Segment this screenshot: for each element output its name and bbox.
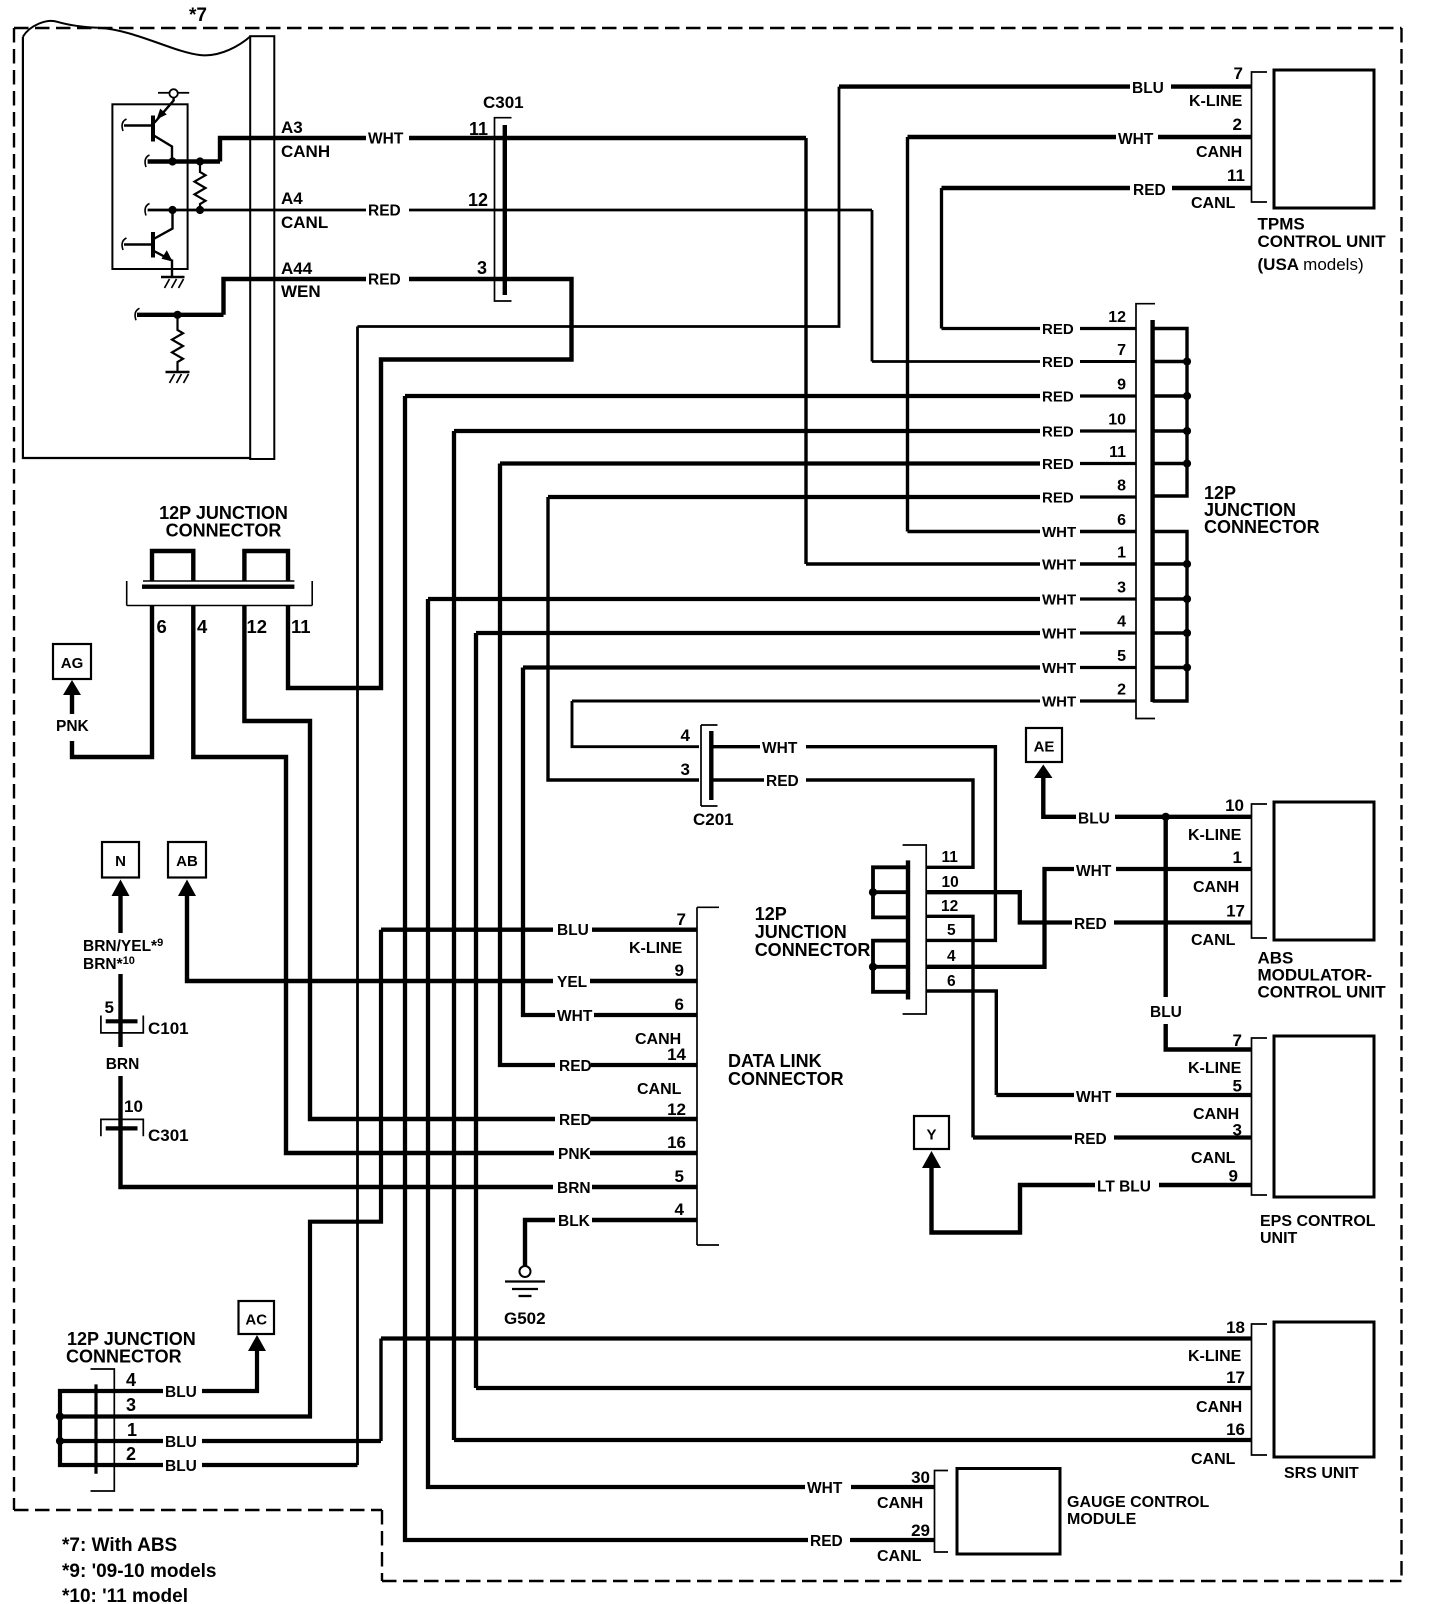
svg-text:4: 4	[947, 948, 956, 965]
svg-text:CONNECTOR: CONNECTOR	[728, 1069, 844, 1089]
svg-text:5: 5	[675, 1167, 684, 1186]
wire A4 CANL: ECM to C301 pin 12 then junction pin 7 (RED)	[148, 209, 366, 212]
svg-text:6: 6	[675, 995, 684, 1014]
svg-text:10: 10	[124, 1097, 143, 1116]
svg-text:YEL: YEL	[557, 974, 587, 991]
svg-text:5: 5	[1233, 1077, 1242, 1096]
svg-text:BLU: BLU	[1132, 80, 1164, 97]
wire WHT: right junction pin 2 to C201 pin 4	[572, 700, 1040, 703]
svg-text:MODULE: MODULE	[1067, 1511, 1137, 1528]
connector AG	[53, 644, 91, 679]
svg-text:CANL: CANL	[281, 213, 328, 232]
node: K-LINE tap to EPS	[1162, 813, 1170, 821]
svg-text:LT BLU: LT BLU	[1097, 1179, 1151, 1196]
svg-text:RED: RED	[1042, 490, 1074, 507]
wire WHT: middle junction pin 4 to ABS CANH pin 1	[926, 869, 1074, 967]
svg-text:RED: RED	[368, 203, 401, 220]
svg-text:7: 7	[1233, 1031, 1242, 1050]
transistor Q2 (lower)	[155, 211, 173, 239]
svg-text:RED: RED	[1042, 321, 1074, 338]
svg-text:RED: RED	[1042, 389, 1074, 406]
svg-text:CONTROL UNIT: CONTROL UNIT	[1258, 983, 1387, 1002]
svg-text:CONNECTOR: CONNECTOR	[755, 940, 871, 960]
svg-text:RED: RED	[1074, 916, 1107, 933]
svg-text:9: 9	[675, 961, 684, 980]
svg-text:7: 7	[1234, 64, 1243, 83]
svg-text:6: 6	[157, 616, 167, 637]
svg-text:4: 4	[1117, 614, 1126, 631]
svg-text:WEN: WEN	[281, 282, 321, 301]
inner transistor-pair box	[112, 104, 187, 269]
svg-text:3: 3	[477, 258, 487, 278]
wire YEL: connector AB to DLC pin 9	[187, 896, 553, 981]
svg-text:12: 12	[1108, 309, 1126, 326]
svg-text:RED: RED	[559, 1112, 592, 1129]
svg-text:2: 2	[1117, 682, 1126, 699]
svg-text:BRN: BRN	[557, 1180, 591, 1197]
svg-text:C301: C301	[483, 93, 524, 112]
svg-text:BLU: BLU	[165, 1384, 197, 1401]
ground (inside ECM, WEN)	[166, 371, 190, 373]
svg-text:2: 2	[126, 1444, 136, 1464]
wire RED: C201 pin 3 to middle junction pin 11	[713, 778, 764, 781]
svg-text:18: 18	[1226, 1318, 1245, 1337]
EPS control unit box	[1274, 1036, 1374, 1197]
svg-text:CANH: CANH	[1193, 879, 1239, 896]
connector AB	[168, 842, 206, 878]
junction bus jumper (rows 12-8)	[1153, 329, 1187, 497]
svg-text:12: 12	[667, 1100, 686, 1119]
svg-text:14: 14	[667, 1045, 686, 1064]
svg-text:WHT: WHT	[1042, 524, 1076, 541]
svg-text:DATA LINK: DATA LINK	[728, 1051, 822, 1071]
TPMS connector bracket	[1252, 72, 1268, 202]
wire RED: right junction pin 11 down to DLC CANL pin 14	[500, 461, 1040, 465]
junction bus jumper (rows 6-2)	[1153, 532, 1187, 702]
wire BLU: DLC K-LINE pin 7 down to bottom junction pin 3	[381, 928, 553, 932]
svg-text:16: 16	[667, 1133, 686, 1152]
12P junction connector (middle)	[903, 845, 927, 1014]
svg-text:WHT: WHT	[368, 131, 404, 148]
svg-text:9: 9	[1117, 377, 1126, 394]
junction jumper (pins 4-3-1-2)	[60, 1391, 96, 1465]
svg-text:7: 7	[1117, 342, 1126, 359]
wire WHT to TPMS CANH pin 2	[908, 135, 1117, 139]
svg-text:9: 9	[1229, 1167, 1238, 1186]
wire RED: right junction pin 9 down to gauge module CANL pin 29	[405, 394, 1040, 398]
svg-text:12: 12	[247, 616, 268, 637]
wire WHT: right junction pin 3 down to gauge module CANH pin 30	[428, 597, 1040, 601]
wire RED: middle junction pin 10 to ABS CANL pin 17	[926, 892, 1072, 922]
svg-text:*10: '11 model: *10: '11 model	[62, 1586, 188, 1604]
svg-text:C101: C101	[148, 1019, 189, 1038]
svg-text:BRN/YEL*9: BRN/YEL*9	[83, 937, 163, 955]
ECM pin-header connector strip	[250, 36, 274, 459]
svg-text:RED: RED	[368, 272, 401, 289]
svg-text:RED: RED	[766, 773, 799, 790]
wire RED: right junction pin 8 to C201 pin 3	[548, 495, 1040, 499]
svg-text:12: 12	[468, 190, 488, 210]
connector C101 (inline)	[101, 1016, 143, 1033]
svg-text:CONNECTOR: CONNECTOR	[1204, 517, 1320, 537]
svg-text:CANL: CANL	[1191, 195, 1236, 212]
wire RED: middle junction pin 12 down to EPS CANL pin 3	[926, 916, 973, 1137]
svg-text:CANL: CANL	[637, 1081, 682, 1098]
svg-text:1: 1	[127, 1420, 137, 1440]
svg-text:4: 4	[681, 726, 691, 745]
connector Y	[914, 1116, 949, 1149]
svg-text:CONNECTOR: CONNECTOR	[166, 521, 282, 541]
svg-text:WHT: WHT	[1042, 557, 1076, 574]
wire BLU: connector AE to ABS K-LINE pin 10	[1043, 777, 1076, 817]
wire PNK: junction pin 6 to connector AG	[72, 606, 152, 758]
svg-text:CONTROL UNIT: CONTROL UNIT	[1258, 232, 1387, 251]
svg-text:UNIT: UNIT	[1260, 1230, 1298, 1247]
svg-text:CANH: CANH	[877, 1495, 923, 1512]
svg-text:K-LINE: K-LINE	[1188, 1348, 1242, 1365]
svg-text:A44: A44	[281, 259, 313, 278]
wire: SRS K-LINE pin 18 to bottom junction pin 1	[381, 1336, 1252, 1340]
svg-text:PNK: PNK	[56, 718, 90, 735]
data link connector body	[697, 907, 719, 1245]
svg-text:4: 4	[197, 616, 208, 637]
wire WHT: right junction pin 5 down to DLC CANH pin 6	[523, 665, 1040, 669]
svg-text:BLU: BLU	[165, 1434, 197, 1451]
svg-text:6: 6	[1117, 512, 1126, 529]
svg-text:(USA models): (USA models)	[1258, 255, 1364, 274]
wire TPMS K-LINE BLU: down mid trunk to bottom junction pin 2	[358, 87, 840, 327]
svg-text:3: 3	[681, 760, 690, 779]
svg-text:RED: RED	[1133, 182, 1166, 199]
svg-text:RED: RED	[1042, 424, 1074, 441]
svg-text:RED: RED	[1042, 354, 1074, 371]
svg-text:SRS UNIT: SRS UNIT	[1284, 1465, 1359, 1482]
svg-text:7: 7	[677, 910, 686, 929]
wire BLU: ABS K-LINE down to EPS K-LINE pin 7	[1163, 817, 1167, 997]
svg-text:3: 3	[1117, 580, 1126, 597]
resistor (WEN pull-down)	[172, 317, 183, 372]
svg-text:EPS CONTROL: EPS CONTROL	[1260, 1213, 1376, 1230]
ECM module box with torn-edge wavy top	[23, 37, 250, 458]
wire WHT: middle junction pin 6 down to EPS CANH pin 5	[926, 991, 996, 1095]
svg-text:CANL: CANL	[1191, 1451, 1236, 1468]
connector N	[102, 842, 139, 878]
svg-text:G502: G502	[504, 1309, 546, 1328]
svg-text:8: 8	[1117, 478, 1126, 495]
svg-text:5: 5	[1117, 648, 1126, 665]
svg-text:*7: With ABS: *7: With ABS	[62, 1535, 177, 1556]
svg-text:AE: AE	[1034, 739, 1055, 756]
svg-text:WHT: WHT	[1076, 863, 1112, 880]
connector AC	[239, 1301, 275, 1334]
svg-text:RED: RED	[810, 1533, 843, 1550]
svg-text:12P: 12P	[755, 904, 787, 924]
svg-text:CONNECTOR: CONNECTOR	[66, 1347, 182, 1367]
svg-text:12: 12	[941, 898, 958, 915]
svg-text:11: 11	[1227, 166, 1245, 185]
svg-text:BRN*10: BRN*10	[83, 955, 135, 973]
svg-text:RED: RED	[559, 1058, 592, 1075]
svg-text:11: 11	[291, 616, 311, 637]
node: Q1 emitter rail / A3 takeoff	[148, 159, 220, 163]
svg-text:5: 5	[947, 922, 956, 939]
connector AE	[1026, 728, 1062, 762]
svg-text:10: 10	[1225, 796, 1244, 815]
svg-text:*7: *7	[189, 5, 207, 26]
wire WHT: right junction pin 6 up to TPMS CANH trunk	[906, 137, 909, 532]
svg-text:AB: AB	[176, 853, 198, 870]
wire RED to TPMS CANL pin 11	[942, 186, 1131, 190]
gauge control module box	[957, 1469, 1060, 1555]
svg-text:A4: A4	[281, 189, 303, 208]
ABS modulator-control unit box	[1274, 802, 1374, 940]
svg-text:11: 11	[942, 849, 959, 866]
ground (inside ECM, under Q2)	[161, 276, 185, 278]
svg-text:N: N	[115, 853, 126, 870]
svg-text:29: 29	[911, 1521, 930, 1540]
svg-text:WHT: WHT	[1042, 694, 1076, 711]
svg-text:CANL: CANL	[1191, 1150, 1236, 1167]
svg-text:10: 10	[1108, 412, 1126, 429]
svg-text:AC: AC	[245, 1312, 267, 1329]
svg-text:C201: C201	[693, 810, 734, 829]
svg-text:30: 30	[911, 1468, 930, 1487]
svg-text:BLU: BLU	[165, 1458, 197, 1475]
svg-text:BLU: BLU	[1078, 811, 1110, 828]
wire RED: junction pin 12 down to DLC pin 12	[244, 606, 555, 1120]
svg-text:K-LINE: K-LINE	[1188, 1060, 1242, 1077]
svg-text:CANH: CANH	[1196, 144, 1242, 161]
wire PNK: junction pin 4 down to DLC pin 16	[193, 606, 554, 1154]
svg-text:16: 16	[1226, 1420, 1245, 1439]
svg-text:AG: AG	[61, 655, 84, 672]
svg-text:WHT: WHT	[1118, 131, 1154, 148]
wire BLK: ground G502 to DLC pin 4	[525, 1220, 555, 1266]
svg-text:CANH: CANH	[1196, 1399, 1242, 1416]
wire BRN: C301 to DLC pin 5	[121, 1128, 554, 1187]
wire BLU to TPMS K-LINE pin 7	[839, 84, 1130, 88]
svg-text:10: 10	[942, 874, 959, 891]
svg-text:11: 11	[469, 119, 488, 139]
junction jumper (rows 5-6)	[873, 941, 908, 992]
svg-text:BLK: BLK	[558, 1213, 591, 1230]
svg-text:11: 11	[1109, 444, 1126, 461]
svg-text:JUNCTION: JUNCTION	[755, 922, 847, 942]
svg-text:WHT: WHT	[1076, 1089, 1112, 1106]
svg-text:*9: '09-10 models: *9: '09-10 models	[62, 1561, 216, 1582]
svg-text:CANL: CANL	[877, 1548, 922, 1565]
svg-text:BLU: BLU	[557, 922, 589, 939]
svg-text:K-LINE: K-LINE	[629, 940, 683, 957]
svg-text:17: 17	[1226, 902, 1245, 921]
svg-text:4: 4	[675, 1200, 685, 1219]
svg-text:BRN: BRN	[106, 1056, 140, 1073]
svg-text:TPMS: TPMS	[1258, 215, 1305, 234]
dashed harness boundary	[14, 27, 1402, 29]
svg-text:PNK: PNK	[558, 1146, 592, 1163]
svg-text:1: 1	[1233, 848, 1242, 867]
svg-text:1: 1	[1117, 545, 1126, 562]
connector C201 (inline)	[701, 725, 718, 806]
svg-text:WHT: WHT	[557, 1008, 593, 1025]
svg-text:C301: C301	[148, 1126, 189, 1145]
SRS unit box	[1274, 1322, 1374, 1457]
svg-text:Y: Y	[926, 1127, 936, 1144]
connector C301 (inline, lower)	[101, 1119, 143, 1136]
svg-text:6: 6	[947, 973, 956, 990]
TPMS control unit box	[1274, 70, 1374, 208]
wire A3 CANH: ECM to C301 pin 11 then junction pin 1 (WHT)	[220, 138, 366, 162]
wire BLU: bottom junction pin 4 to connector AC	[96, 1389, 163, 1393]
svg-text:2: 2	[1233, 115, 1242, 134]
junction jumper (rows 11-12)	[873, 867, 908, 917]
svg-text:RED: RED	[1042, 456, 1074, 473]
svg-text:WHT: WHT	[1042, 660, 1076, 677]
wire WHT: C201 pin 4 to middle junction pin 5	[713, 745, 760, 748]
internal CAN driver circuit: supply node circle	[169, 89, 177, 97]
wire WHT: right junction pin 4 down to SRS CANH pin 17	[476, 631, 1040, 635]
svg-text:GAUGE CONTROL: GAUGE CONTROL	[1067, 1494, 1209, 1511]
svg-text:3: 3	[1233, 1121, 1242, 1140]
svg-text:A3: A3	[281, 118, 303, 137]
svg-text:17: 17	[1226, 1368, 1245, 1387]
svg-text:K-LINE: K-LINE	[1188, 827, 1242, 844]
svg-text:WHT: WHT	[1042, 592, 1076, 609]
svg-text:4: 4	[126, 1370, 136, 1390]
wire TPMS CANL RED: down to right junction pin 12	[940, 188, 943, 329]
svg-text:RED: RED	[1074, 1131, 1107, 1148]
svg-text:5: 5	[105, 998, 114, 1017]
12P junction connector (right)	[1136, 304, 1155, 719]
svg-text:BLU: BLU	[1150, 1004, 1182, 1021]
svg-text:WHT: WHT	[1042, 626, 1076, 643]
wire A44 WEN: ECM to C301 pin 3 then left junction pin 11 (RED)	[137, 313, 224, 317]
resistor (termination) between CANH and CANL rails	[195, 164, 206, 208]
svg-text:WHT: WHT	[762, 740, 798, 757]
wire BRN/YEL to C101 pin 5	[118, 896, 122, 933]
svg-text:CANL: CANL	[1191, 932, 1236, 949]
wire RED: right junction pin 10 down to SRS CANL pin 16	[454, 429, 1040, 433]
wire BRN between C101 and C301	[118, 1021, 122, 1047]
ground G502	[520, 1266, 531, 1277]
svg-text:CANH: CANH	[281, 142, 330, 161]
wire LT BLU: connector Y to EPS pin 9	[932, 1168, 1096, 1233]
transistor Q1 (upper)	[155, 98, 174, 123]
svg-text:3: 3	[126, 1395, 136, 1415]
svg-text:WHT: WHT	[807, 1480, 843, 1497]
svg-text:K-LINE: K-LINE	[1189, 93, 1243, 110]
